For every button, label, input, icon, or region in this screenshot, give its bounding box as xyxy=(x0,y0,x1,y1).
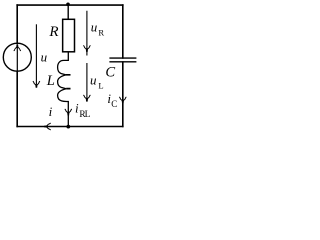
svg-text:u: u xyxy=(90,73,97,88)
svg-text:u: u xyxy=(91,20,98,35)
svg-text:R: R xyxy=(98,28,104,38)
svg-text:L: L xyxy=(98,81,103,91)
svg-text:u: u xyxy=(41,50,48,65)
svg-text:C: C xyxy=(111,99,117,109)
svg-text:L: L xyxy=(46,73,55,89)
svg-text:R: R xyxy=(48,24,58,40)
svg-text:i: i xyxy=(75,101,79,116)
svg-text:L: L xyxy=(85,110,91,120)
svg-text:C: C xyxy=(105,64,115,80)
svg-text:i: i xyxy=(49,104,53,119)
